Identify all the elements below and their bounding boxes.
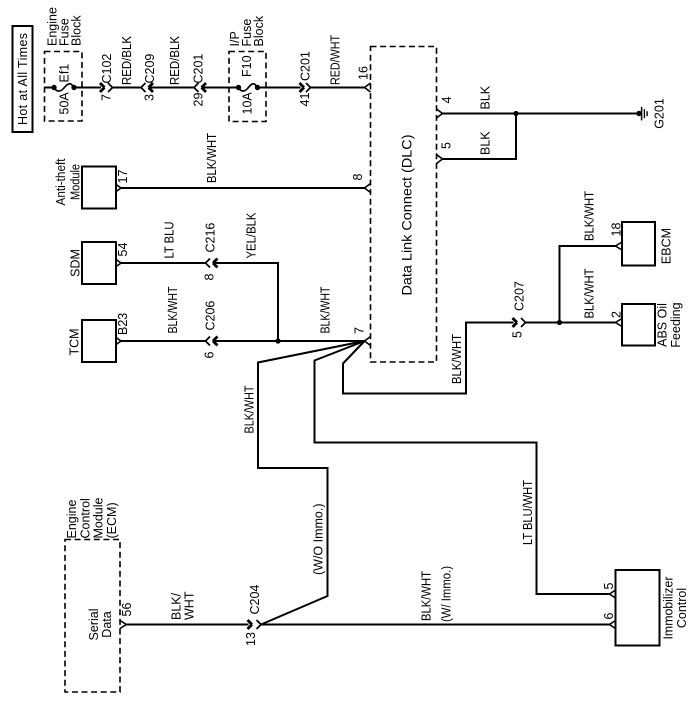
pin 18 of EBCM: [610, 223, 624, 250]
svg-text:LT BLU: LT BLU: [163, 222, 177, 259]
wire BLK/WHT branch up to EBCM pin 18: [560, 191, 616, 323]
pin 5 of Immobilizer Control: [602, 583, 616, 599]
wire BLK DLC pin 4 to ground: [443, 85, 640, 113]
junction to EBCM branch: [557, 320, 562, 325]
I/P Fuse Block (dashed): [228, 15, 266, 121]
svg-text:Control: Control: [675, 588, 689, 628]
pin 54 of SDM: [116, 243, 130, 267]
connector C216 pin 8: [203, 223, 218, 281]
svg-text:F10: F10: [240, 55, 254, 77]
DLC pin 16: [357, 66, 371, 92]
svg-text:C209: C209: [143, 54, 157, 84]
svg-text:Engine: Engine: [65, 500, 79, 539]
svg-text:5: 5: [511, 331, 525, 338]
pin 17 of Anti-theft Module: [116, 170, 130, 192]
svg-text:SDM: SDM: [69, 249, 83, 277]
ground G201: [636, 98, 666, 129]
svg-text:Block: Block: [70, 15, 84, 46]
svg-text:50A: 50A: [58, 92, 72, 115]
svg-text:G201: G201: [653, 98, 667, 129]
svg-text:Data: Data: [100, 611, 114, 637]
wire RED/WHT C201 to DLC pin 16: [311, 35, 365, 88]
svg-text:10A: 10A: [241, 92, 255, 115]
Anti-theft Module box: [54, 158, 116, 208]
svg-text:(W/O Immo.): (W/O Immo.): [312, 503, 326, 575]
svg-text:8: 8: [203, 274, 217, 281]
svg-text:Block: Block: [252, 15, 266, 46]
svg-text:Immobilizer: Immobilizer: [662, 577, 676, 640]
Data Link Connect (DLC) dashed box: [371, 47, 437, 363]
svg-text:LT BLU/WHT: LT BLU/WHT: [521, 480, 535, 545]
svg-text:BLK/: BLK/: [170, 592, 184, 620]
wire BLK/WHT (W/O Immo.) DLC pin 7 to C204: [243, 341, 365, 625]
svg-text:BLK/WHT: BLK/WHT: [450, 334, 464, 384]
wire LT BLU/WHT DLC pin 7 to Immobilizer pin 5: [315, 341, 610, 594]
DLC pin 7: [353, 327, 371, 346]
svg-text:56: 56: [120, 603, 134, 617]
TCM box: [68, 320, 117, 362]
svg-text:5: 5: [440, 142, 454, 149]
fuse Ef1 50A: [51, 64, 76, 115]
svg-text:BLK/WHT: BLK/WHT: [166, 286, 180, 333]
svg-text:41: 41: [298, 93, 312, 107]
fuse F10 10A: [236, 55, 260, 114]
svg-text:C206: C206: [204, 301, 218, 331]
svg-text:5: 5: [602, 583, 616, 590]
svg-text:8: 8: [351, 174, 365, 181]
svg-text:Anti-theft: Anti-theft: [54, 158, 68, 205]
wire BLK/WHT C206 to DLC pin 7: [213, 286, 365, 341]
svg-text:Data Link Connect (DLC): Data Link Connect (DLC): [399, 135, 415, 296]
pin 6 of Immobilizer Control: [602, 613, 616, 629]
junction of BLK wires: [513, 111, 518, 116]
svg-text:C201: C201: [299, 51, 313, 81]
svg-text:RED/BLK: RED/BLK: [168, 35, 182, 85]
svg-text:2: 2: [610, 311, 624, 318]
svg-text:16: 16: [357, 66, 371, 80]
DLC pin 4: [437, 97, 455, 119]
node Hot at All Times label box: [13, 26, 33, 132]
pin B23 of TCM: [116, 313, 130, 345]
svg-text:54: 54: [116, 243, 130, 257]
svg-text:C102: C102: [100, 54, 114, 84]
wire LT BLU SDM to C216: [121, 222, 206, 264]
ABS Oil Feeding box: [622, 302, 683, 347]
svg-text:BLK/WHT: BLK/WHT: [243, 385, 257, 433]
svg-text:TCM: TCM: [68, 328, 82, 355]
DLC pin 5: [437, 142, 454, 164]
node Serial Data: [87, 609, 114, 641]
svg-text:6: 6: [203, 352, 217, 359]
svg-text:BLK/WHT: BLK/WHT: [583, 268, 597, 318]
svg-text:YEL/BLK: YEL/BLK: [245, 212, 259, 259]
wire Ef1 to C102: [74, 87, 101, 89]
svg-text:B23: B23: [116, 313, 130, 335]
svg-text:18: 18: [610, 223, 624, 237]
connector C201 pin 29: [192, 54, 207, 107]
wire BLK DLC pin 5 joining pin 4 wire: [443, 114, 517, 160]
svg-text:Control: Control: [78, 498, 92, 538]
wire F10 to C201: [258, 87, 301, 89]
svg-text:7: 7: [353, 327, 367, 334]
wire BLK/WHT ECM to C204: [126, 591, 248, 624]
svg-text:C201: C201: [192, 54, 206, 84]
wire BLK/WHT Anti-theft to DLC pin 8: [121, 133, 365, 188]
EBCM box: [622, 222, 674, 266]
svg-text:BLK/WHT: BLK/WHT: [205, 133, 219, 183]
connector C209 pin 3: [141, 54, 157, 101]
SDM box: [69, 242, 117, 284]
svg-text:EBCM: EBCM: [660, 228, 674, 264]
svg-text:(W/ Immo.): (W/ Immo.): [440, 566, 454, 622]
svg-text:RED/BLK: RED/BLK: [120, 35, 134, 85]
wire C201 into I/P fuse block: [202, 87, 239, 89]
connector C102 pin 7: [100, 54, 115, 101]
Engine Control Module (ECM) dashed box: [65, 497, 120, 692]
svg-text:3: 3: [143, 94, 157, 101]
wire BLK/WHT DLC pin 7 to C207: [343, 323, 514, 394]
svg-text:C216: C216: [204, 223, 218, 253]
wire BLK/WHT C207 to ABS Oil Feeding pin 2: [526, 268, 616, 322]
svg-text:BLK/WHT: BLK/WHT: [420, 571, 434, 621]
svg-text:BLK: BLK: [479, 85, 493, 109]
wire BLK/WHT TCM to C206: [121, 286, 206, 341]
wire RED/BLK C102 to C209: [113, 35, 142, 87]
svg-text:Ef1: Ef1: [58, 64, 72, 83]
svg-text:7: 7: [100, 94, 114, 101]
svg-text:WHT: WHT: [183, 591, 197, 620]
svg-text:Module: Module: [69, 164, 83, 200]
svg-text:C204: C204: [248, 585, 262, 615]
svg-text:(ECM): (ECM): [105, 502, 119, 538]
svg-text:Serial: Serial: [87, 609, 101, 641]
svg-text:RED/WHT: RED/WHT: [329, 35, 343, 85]
pin 2 of ABS Oil Feeding: [610, 311, 624, 327]
svg-text:C207: C207: [513, 281, 527, 311]
connector C207 pin 5: [511, 281, 527, 338]
svg-text:Module: Module: [92, 497, 106, 538]
Immobilizer Control box: [616, 570, 690, 646]
connector C206 pin 6: [203, 301, 218, 359]
svg-text:BLK/WHT: BLK/WHT: [583, 191, 597, 241]
svg-text:BLK: BLK: [479, 131, 493, 155]
svg-text:BLK/WHT: BLK/WHT: [319, 286, 333, 333]
wire YEL/BLK C216 down to TCM wire junction: [213, 212, 278, 341]
Engine Fuse Block (dashed): [45, 7, 84, 121]
connector C204 pin 13: [244, 585, 262, 646]
wire RED/BLK C209 to C201: [149, 35, 195, 87]
pin 56 of ECM: [120, 603, 134, 629]
svg-text:ABS Oil: ABS Oil: [656, 303, 670, 347]
svg-text:17: 17: [116, 170, 130, 184]
junction of YEL/BLK and BLK/WHT wires: [275, 338, 280, 343]
svg-text:Feeding: Feeding: [669, 302, 683, 347]
svg-text:13: 13: [244, 632, 258, 646]
svg-text:Hot at All Times: Hot at All Times: [16, 33, 30, 125]
wire BLK/WHT (W/ Immo.) C204 to Immobilizer pin 6: [261, 566, 610, 625]
svg-text:29: 29: [192, 93, 206, 107]
DLC pin 8: [351, 174, 371, 193]
svg-text:6: 6: [602, 613, 616, 620]
svg-text:4: 4: [440, 97, 454, 104]
wire feed into fuse Ef1: [45, 87, 55, 89]
connector C201 pin 41: [298, 51, 313, 106]
